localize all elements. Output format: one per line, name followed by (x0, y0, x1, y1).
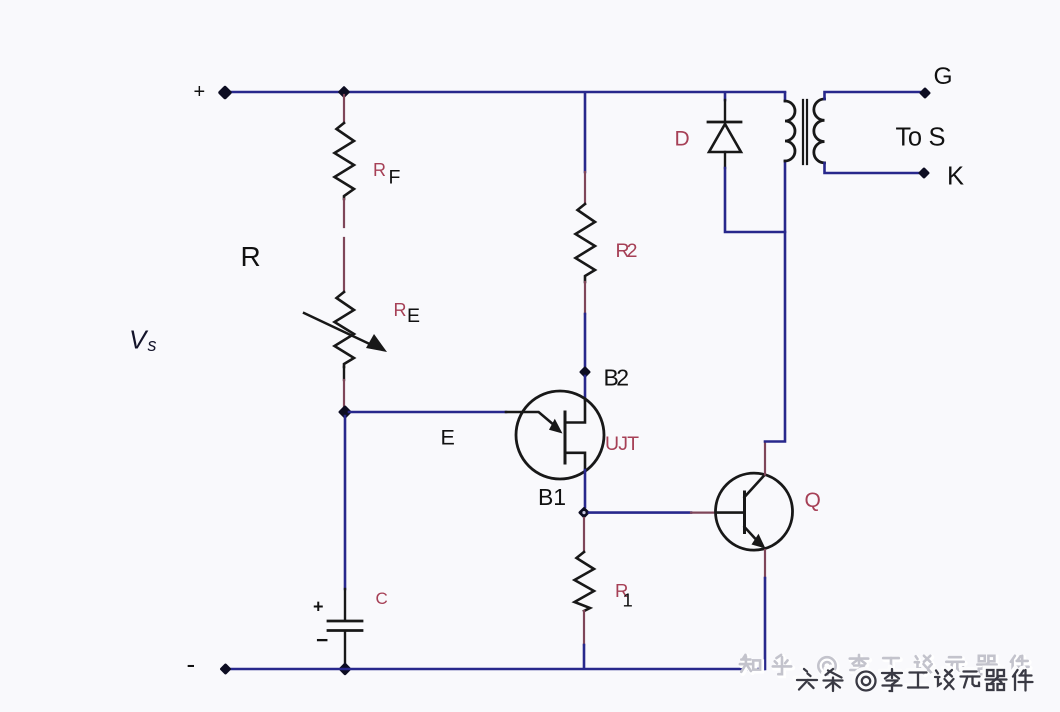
node junction RF top (338, 86, 351, 99)
svg-text:-: - (187, 649, 196, 679)
node E junction (338, 405, 352, 419)
wire R1 top stub (583, 518, 585, 552)
svg-text:+: + (194, 81, 206, 103)
wire E down to capacitor (344, 416, 347, 589)
svg-text:F: F (389, 167, 401, 189)
node G terminal (919, 87, 931, 99)
svg-text:R: R (394, 300, 407, 320)
svg-text:−: − (316, 629, 328, 652)
transformer primary winding (784, 93, 787, 101)
svg-text:B1: B1 (538, 484, 566, 510)
wire R2 bottom stub (584, 282, 586, 314)
resistor R1 (575, 552, 595, 611)
svg-text:To S: To S (896, 124, 946, 152)
transistor Q internals (743, 492, 746, 533)
wire diode bottom (725, 168, 785, 232)
wire bottom rail (225, 668, 764, 671)
wire RE bottom stub (343, 367, 345, 380)
watermark zhihu light text (740, 655, 1029, 675)
svg-text:E: E (441, 426, 455, 450)
wire RF-RE stub (343, 199, 345, 292)
resistor R2 (576, 204, 596, 282)
svg-text:R: R (373, 160, 386, 180)
svg-text:E: E (407, 305, 420, 327)
node K terminal (918, 167, 930, 179)
op-amp UJT U1 circle (516, 391, 604, 479)
node B2 (579, 366, 591, 378)
wire UJT B1 down (584, 470, 587, 507)
svg-text:V: V (129, 325, 149, 355)
watermark zhihu white halo (741, 656, 1030, 676)
arrow of variable resistor RE (304, 313, 376, 347)
transformer secondary winding (814, 99, 825, 163)
wire R1 bottom stub (583, 611, 585, 645)
diode D (708, 121, 741, 124)
wire Q collector (764, 442, 766, 475)
svg-text:1: 1 (623, 590, 633, 611)
node B1 (578, 507, 590, 519)
wire secondary to K (825, 163, 920, 173)
capacitor C (328, 620, 362, 623)
transistor Q circle (716, 473, 793, 550)
svg-text:UJT: UJT (605, 433, 639, 455)
svg-text:R2: R2 (616, 240, 638, 262)
svg-text:G: G (934, 63, 953, 90)
wire B1 horizontal to Q base (589, 511, 691, 514)
svg-text:B2: B2 (604, 365, 630, 391)
wire Q emitter (764, 550, 766, 578)
watermark toutiao white halo (795, 667, 1031, 689)
svg-text:s: s (148, 335, 157, 355)
wire diode top stub (724, 93, 727, 100)
wire secondary to G (825, 92, 921, 99)
svg-text:R: R (241, 241, 261, 272)
wire top rail (225, 91, 785, 94)
node - terminal (219, 663, 231, 675)
svg-text:K: K (947, 163, 964, 191)
node capacitor-rail junction (338, 662, 352, 676)
watermark toutiao dark text (797, 669, 1033, 691)
wire R2 top (584, 93, 587, 172)
resistor RF (335, 123, 355, 199)
svg-text:D: D (675, 128, 690, 151)
node + terminal (218, 85, 233, 100)
svg-text:Q: Q (805, 489, 821, 512)
transistor UJT internals (564, 412, 567, 463)
wire E horizontal (349, 411, 506, 414)
svg-text:C: C (376, 589, 388, 608)
svg-text:+: + (313, 597, 324, 617)
resistor RE (variable) (335, 292, 355, 367)
wire RF top stub (343, 95, 345, 123)
wire B2 to UJT (584, 376, 587, 400)
transformer core (802, 100, 804, 164)
